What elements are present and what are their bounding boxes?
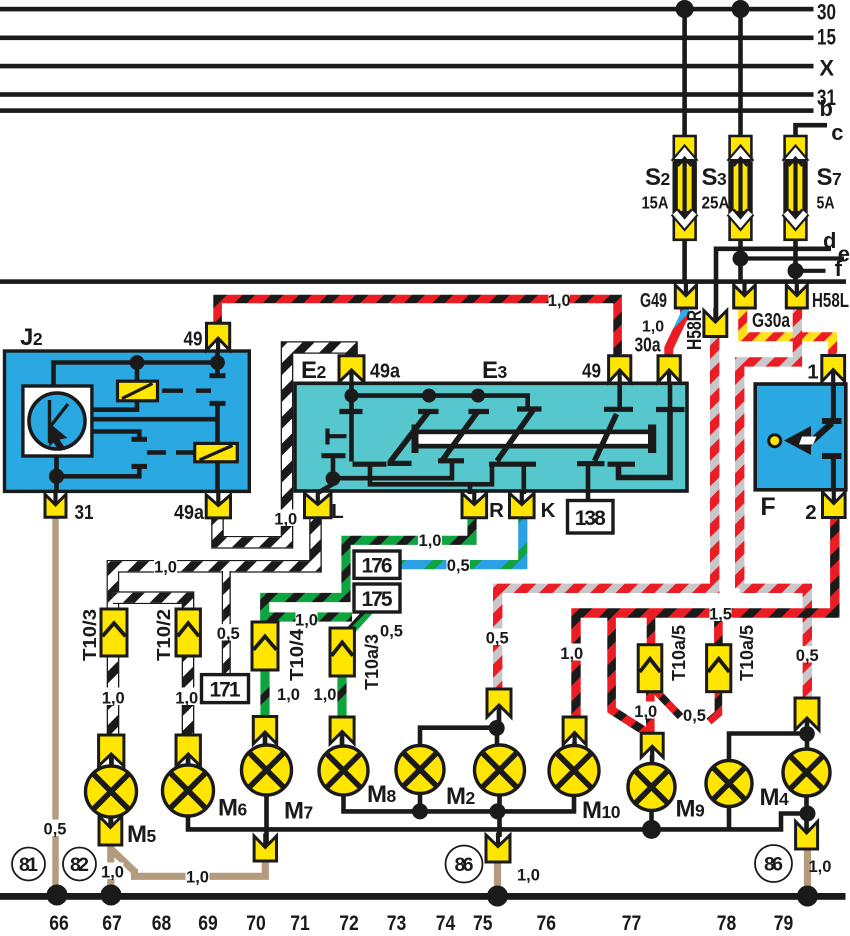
J2 junction dot right	[210, 355, 225, 370]
main connector rail	[0, 279, 846, 284]
svg-text:1: 1	[807, 361, 818, 384]
svg-text:76: 76	[537, 912, 557, 935]
wire black/white T10/3 to lamp M5	[107, 655, 120, 737]
svg-text:1,0: 1,0	[186, 869, 209, 887]
svg-text:1,0: 1,0	[517, 867, 540, 885]
wire lamp M5 bottom	[109, 814, 114, 830]
connector R	[462, 493, 487, 518]
junction dot y811 track75	[490, 803, 506, 819]
J2 switch contact bar bottom	[210, 401, 226, 406]
ground dot track79	[797, 886, 818, 907]
bus line 31	[0, 92, 814, 97]
junction dot y811 M2	[412, 803, 428, 819]
wire d with vertical to connector H58R	[716, 249, 831, 324]
lamp M9	[628, 764, 675, 811]
svg-text:0,5: 0,5	[486, 630, 509, 648]
E bottom bar B3	[438, 458, 464, 463]
J2 switch2 bar bottom	[132, 464, 148, 469]
bus line b	[0, 108, 814, 113]
connector T10a/3	[330, 628, 354, 676]
label 1,0 top red/black	[549, 291, 571, 308]
svg-text:30: 30	[817, 0, 836, 25]
connector T10a/5 right	[707, 645, 731, 692]
svg-text:74: 74	[436, 912, 456, 935]
J2 wire electronics bottom to node and conn 31	[54, 455, 59, 492]
wire red/black 49: E-box conn 49 to J2 conn 49	[218, 299, 618, 358]
E contact bar dot1 column	[339, 409, 362, 414]
wire lamp M9 top connector to lamp	[650, 755, 655, 766]
connector M7 bottom	[254, 836, 276, 861]
bus line 30	[0, 7, 814, 12]
ground symbol 86 right	[755, 845, 792, 882]
wire red/black 0,5 stub from T10a/5 right	[709, 691, 718, 722]
J2 wire electronics mid to 49 column	[93, 417, 218, 422]
svg-text:M5: M5	[127, 821, 157, 848]
wire brown track75 connector to ground	[494, 860, 501, 892]
svg-text:73: 73	[387, 912, 407, 935]
connector J2 49a	[206, 495, 230, 518]
lamp M5	[86, 766, 137, 817]
svg-text:K: K	[541, 499, 556, 522]
black joint rail y811 M8 to M10	[344, 793, 575, 811]
label 0,5 thin white wire	[218, 624, 240, 641]
E contact bar dot3 column	[469, 409, 490, 414]
svg-text:0,5: 0,5	[217, 625, 240, 643]
svg-text:T10a/3: T10a/3	[362, 634, 382, 690]
junction dot line30/S2	[676, 0, 694, 18]
svg-text:M8: M8	[367, 781, 397, 808]
J2 bottom junction dot	[49, 469, 64, 484]
J2 electronics circle symbol	[29, 393, 85, 449]
svg-text:82: 82	[70, 854, 89, 876]
svg-text:0,5: 0,5	[447, 557, 470, 575]
wire black/white branch to T10/2	[113, 598, 188, 611]
svg-text:49a: 49a	[370, 360, 401, 383]
svg-text:69: 69	[198, 912, 218, 935]
designation box 171	[202, 675, 249, 703]
svg-text:67: 67	[102, 912, 122, 935]
wire lamp M4 bottom	[727, 805, 732, 829]
wire below fuse S7 to main rail	[793, 239, 798, 282]
wire black/white 49a: J2 conn 49a to E-box conn 49a	[218, 348, 352, 543]
wire red/black branch to T10a/5 left	[647, 613, 656, 646]
svg-text:1,0: 1,0	[277, 686, 300, 704]
lamp M6	[163, 765, 214, 816]
wire lamp M2 feed from track75 lamp column	[420, 728, 497, 747]
lamp M10	[549, 746, 599, 796]
fuse S3	[730, 136, 752, 240]
connector E 30a	[658, 356, 680, 382]
svg-text:138: 138	[575, 507, 606, 530]
svg-text:H58R: H58R	[683, 310, 706, 350]
label 0,5 lightblue wire	[447, 556, 471, 573]
svg-text:75: 75	[473, 912, 493, 935]
E switch slider white bar	[412, 430, 657, 449]
J2 junction dot left	[130, 355, 145, 370]
wire red/black branch to M9 via diagonal	[612, 613, 646, 732]
fuse S7	[785, 136, 807, 240]
label 1,0 T10/3 wire	[103, 688, 124, 706]
J2 switch contact bar top	[210, 373, 226, 378]
connector G49	[675, 285, 696, 308]
E bottom bar B2	[353, 462, 387, 467]
wire lamp M2 bottom	[418, 792, 423, 812]
svg-text:T10/4: T10/4	[287, 629, 307, 681]
connector F 1	[822, 356, 845, 382]
svg-text:1,0: 1,0	[154, 559, 177, 577]
svg-text:J2: J2	[20, 324, 43, 351]
wire black/white L net: conn L to T10/3	[113, 516, 316, 611]
svg-text:M7: M7	[284, 798, 313, 825]
connector track75 ground	[486, 835, 510, 862]
J2 wire switch2 to bottom node	[57, 466, 140, 476]
E wiper diagonal 4	[595, 414, 617, 461]
svg-text:b: b	[820, 96, 833, 121]
wire brown track79 connector to ground	[804, 847, 811, 893]
svg-text:1,0: 1,0	[419, 532, 442, 550]
J2 wire dot to coil1	[135, 363, 140, 383]
E bottom bar B4	[489, 462, 536, 467]
svg-text:79: 79	[774, 912, 794, 935]
svg-text:0,5: 0,5	[380, 623, 403, 641]
F pushbutton dot	[769, 435, 781, 447]
connector T10/2	[176, 609, 200, 656]
svg-text:c: c	[831, 120, 843, 145]
connector M6 top	[176, 735, 200, 766]
wire lamp M7 top connector to lamp	[263, 730, 268, 748]
lamp M7	[242, 745, 292, 795]
svg-text:86: 86	[455, 854, 474, 876]
svg-text:175: 175	[362, 588, 393, 611]
connector J2 31	[45, 494, 66, 517]
svg-text:1,0: 1,0	[295, 612, 318, 630]
ground rail bottom	[0, 893, 846, 900]
connector L	[305, 493, 332, 518]
junction dot M2 feed	[489, 720, 505, 736]
wire lamp M8 top connector to lamp	[340, 730, 345, 748]
J2 relay coil 2	[195, 443, 238, 461]
E contact bar dot2 column	[418, 409, 439, 414]
connector E 49a	[339, 356, 364, 382]
wire red/grey H58R to lamp connector track75	[498, 334, 715, 690]
svg-text:F: F	[760, 493, 775, 521]
ground dot track67	[101, 885, 122, 906]
J2 electronics white box	[23, 386, 92, 456]
svg-text:H58L: H58L	[812, 289, 849, 312]
E bottom bar B7	[608, 462, 636, 467]
wire red/lightblue 30a: G49 to E-box conn 30a	[669, 306, 685, 358]
connector M5 bottom	[99, 816, 122, 845]
wire f from S7 column	[796, 269, 826, 273]
wire red/yellow: G30a to F conn 1	[743, 306, 833, 358]
designation box 175	[354, 584, 400, 612]
wire red/black T10a/5 left to M9 connector	[646, 691, 655, 734]
svg-text:T10/2: T10/2	[154, 609, 174, 661]
junction dot track79 lamp ground	[800, 806, 816, 822]
label 1,5 rail	[710, 604, 732, 621]
wire red/black branch to T10a/5 right	[714, 618, 723, 646]
svg-text:1,0: 1,0	[560, 645, 583, 663]
connector T10/3	[101, 609, 127, 656]
E contact L assembly	[321, 453, 345, 458]
label 0,5 red/grey track75	[487, 629, 509, 646]
svg-text:G49: G49	[640, 289, 667, 312]
E side contact stub	[328, 429, 347, 445]
svg-text:68: 68	[152, 912, 172, 935]
connector track79 ground	[796, 822, 818, 850]
label 1,0 R wire	[418, 531, 442, 548]
connector M10 top	[563, 717, 586, 745]
bus line 15	[0, 36, 814, 41]
svg-text:S7: S7	[817, 164, 842, 191]
svg-text:1,0: 1,0	[175, 690, 198, 708]
wire below fuse S3 to main rail	[738, 239, 743, 282]
svg-text:0,5: 0,5	[796, 647, 819, 665]
J2 wire coil1 to electronics	[93, 401, 137, 410]
wire green/black T10/4 to lamp M7 connector	[260, 669, 269, 719]
svg-text:E3: E3	[482, 357, 508, 384]
svg-text:M10: M10	[582, 797, 621, 824]
wire grey/red H58L to lamp connector track79	[740, 306, 808, 700]
connector T10a/5 left	[638, 645, 662, 692]
wire lamp M7 bottom to connector	[264, 793, 269, 849]
svg-text:25A: 25A	[702, 193, 730, 213]
wire e from S3 column	[741, 256, 845, 260]
junction dot line30/S3	[732, 0, 750, 18]
svg-text:M9: M9	[676, 796, 706, 823]
black joint rail y829 M6 to lamps	[188, 814, 808, 830]
designation box 176	[354, 551, 400, 578]
ground symbol 81	[12, 848, 45, 881]
svg-text:1,0: 1,0	[548, 292, 571, 310]
svg-text:171: 171	[210, 679, 241, 702]
svg-text:T10/3: T10/3	[80, 609, 100, 661]
E wiper diagonal 1	[390, 411, 430, 463]
svg-text:1,5: 1,5	[709, 606, 732, 624]
bus line X	[0, 64, 814, 69]
wire brown branch M5 to M7 connector	[112, 850, 265, 876]
E stub conn 30a with bar	[668, 384, 673, 407]
wire black/white 0,5 branch to box 171	[222, 571, 231, 675]
connector H58R	[704, 311, 727, 337]
svg-text:78: 78	[717, 912, 737, 935]
E wire node to B3	[333, 461, 452, 478]
wire track75 lamp connector through dot to lamp	[497, 703, 500, 837]
connector E 49	[609, 356, 631, 382]
wire green/black diagonal from box 175 to T10a/3	[346, 611, 370, 637]
wire lightblue/green K net: conn K to box 176	[402, 516, 523, 565]
lamp M8	[319, 746, 368, 795]
svg-text:0,5: 0,5	[44, 821, 67, 839]
svg-text:E2: E2	[301, 357, 327, 384]
connector track75 lamp top	[487, 689, 511, 717]
J2 dashed actuator link coil2	[147, 450, 194, 454]
fuse S2	[674, 136, 696, 240]
lamp M4	[706, 761, 752, 807]
J2 relay coil 1	[118, 381, 158, 401]
label 1,0 brown M5 vertical	[102, 863, 124, 880]
F switch arm with arrow	[803, 423, 832, 449]
connector K	[510, 493, 535, 518]
connector M9 top	[641, 733, 663, 757]
svg-text:1,0: 1,0	[102, 690, 125, 708]
E bottom bar B1	[388, 461, 412, 466]
label 1,0 brown horizontal	[186, 868, 210, 885]
svg-text:77: 77	[622, 912, 642, 935]
F wire terminal 2 with T bar	[831, 459, 836, 489]
svg-text:70: 70	[246, 912, 266, 935]
connector M8 top	[330, 717, 354, 744]
ground dot track75	[487, 886, 508, 907]
E hook B7 to 30a column	[619, 412, 671, 478]
wire lamp M9 bottom	[649, 809, 654, 830]
wire brown lamp M5 to ground track 67	[107, 843, 114, 892]
svg-text:49a: 49a	[174, 501, 205, 524]
svg-text:72: 72	[339, 912, 359, 935]
junction dot M4 feed	[799, 726, 815, 742]
svg-text:1,0: 1,0	[809, 858, 832, 876]
wire S3 column from line 30 to fuse S3	[738, 9, 743, 137]
svg-text:1,0: 1,0	[634, 703, 657, 721]
junction dot f	[788, 263, 804, 279]
svg-text:71: 71	[290, 912, 310, 935]
label 1,0 T10a/5 to M9	[636, 702, 657, 719]
connector T10/4	[252, 622, 278, 670]
E wire B2 to B4 with R tap	[370, 464, 492, 494]
svg-text:M2: M2	[446, 783, 476, 810]
E stub conn 49 with bar	[617, 384, 622, 407]
E dot 3	[471, 389, 485, 403]
switch box E2/E3	[295, 383, 687, 491]
E wire 138 drop	[586, 464, 591, 501]
wire brown J2 31 to ground track 66	[52, 515, 58, 892]
wire lamp M4 feed from track79 lamp column	[729, 734, 806, 763]
connector track79 lamp top	[795, 698, 819, 730]
wire lamp M10 top connector to lamp	[572, 742, 577, 748]
wire red/black 0,5 stub from T10a/5 left	[655, 690, 681, 717]
F wire terminal 1 with T bar	[831, 385, 836, 418]
connector G30a	[734, 285, 756, 308]
label 1,0 L wire	[154, 558, 177, 575]
svg-text:176: 176	[362, 555, 393, 578]
svg-text:81: 81	[19, 854, 38, 876]
svg-text:2: 2	[805, 501, 816, 524]
J2 switch2 bar top	[132, 437, 148, 442]
label 0,5 grey/red right	[797, 646, 819, 663]
wire green/black R net: conn R to T10/4	[265, 516, 472, 624]
svg-text:66: 66	[49, 912, 69, 935]
wire red/black 1,5 rail from F conn 2	[576, 516, 835, 718]
wire S2 column from line 30 to fuse S2	[682, 9, 687, 137]
lamp M2	[396, 746, 444, 794]
svg-text:L: L	[331, 500, 344, 523]
svg-text:T10a/5: T10a/5	[737, 625, 757, 681]
switch F box	[755, 384, 846, 490]
ground symbol 86 left	[446, 846, 483, 883]
svg-text:15A: 15A	[642, 193, 669, 213]
svg-text:1,0: 1,0	[101, 864, 124, 882]
J2 wire electronics lower to switch2	[93, 432, 139, 438]
svg-text:1,0: 1,0	[274, 511, 297, 529]
svg-text:R: R	[489, 499, 504, 522]
svg-text:49: 49	[184, 328, 203, 351]
svg-text:5A: 5A	[817, 193, 835, 213]
wire black/white T10/2 to lamp M6	[182, 655, 195, 737]
label 0,5 brown 31 wire	[44, 820, 66, 837]
svg-text:G30a: G30a	[752, 309, 790, 332]
connector M5 top	[99, 735, 124, 766]
connector H58L	[786, 285, 807, 308]
svg-text:T10a/5: T10a/5	[669, 625, 689, 681]
E dot 2	[422, 389, 436, 403]
svg-text:49: 49	[582, 360, 601, 383]
relay J2 box	[5, 351, 250, 491]
wire below fuse S2 to main rail	[682, 239, 687, 282]
junction dot e	[733, 251, 749, 267]
wire track79 lamp connector through dot to lamp	[804, 711, 809, 833]
svg-text:31: 31	[75, 501, 94, 524]
E stub conn 49a	[349, 384, 354, 392]
wire lamp M6 top	[186, 748, 191, 767]
label 1,0 green y618	[296, 611, 318, 628]
svg-text:d: d	[823, 228, 836, 253]
svg-text:0,5: 0,5	[683, 707, 706, 725]
ground dot track66	[47, 885, 68, 906]
wire c to fuse S7	[796, 125, 828, 137]
wire green/black T10a/3 to lamp M8 connector	[337, 675, 346, 719]
J2 dashed actuator link coil1	[162, 389, 211, 393]
svg-text:S3: S3	[702, 164, 728, 191]
label 1,0 49a riser	[276, 510, 297, 527]
E wiper diagonal 3	[497, 410, 534, 462]
wire green/black link T10/4 to diagonal	[271, 617, 352, 624]
E bottom bar B6	[577, 461, 605, 466]
E top rail	[352, 396, 528, 407]
connector J2 49	[207, 323, 230, 350]
svg-text:S2: S2	[645, 164, 671, 191]
E 49a column lower	[349, 396, 354, 462]
svg-text:86: 86	[764, 854, 783, 876]
svg-text:f: f	[835, 256, 843, 281]
svg-text:M6: M6	[218, 795, 248, 822]
svg-text:15: 15	[817, 25, 836, 50]
svg-text:1,0: 1,0	[314, 686, 337, 704]
E contact bar under rail drop	[517, 406, 542, 411]
wire lamp M5 top	[109, 748, 114, 768]
label 1,0 T10/2 wire	[177, 688, 198, 706]
svg-text:30a: 30a	[635, 335, 662, 357]
E wiper diagonal 2	[441, 411, 479, 463]
label 1,0 M10 leg	[562, 644, 583, 661]
junction dot M9 ground	[642, 820, 661, 839]
svg-text:X: X	[819, 56, 834, 81]
J2 wire 49 column	[215, 352, 220, 444]
connector F 2	[823, 492, 846, 518]
svg-text:M4: M4	[760, 784, 790, 811]
connector M7 top	[253, 717, 276, 745]
svg-text:1,0: 1,0	[642, 319, 664, 336]
J2 wire coil2 to conn 49a	[215, 462, 220, 492]
E wire K drop	[521, 464, 526, 494]
lamp track79	[783, 749, 830, 796]
designation box 138	[568, 501, 614, 534]
J2 internal top wire	[54, 363, 218, 388]
lamp track75	[475, 745, 525, 795]
E dot 1	[345, 389, 359, 403]
ground symbol 82	[63, 848, 96, 881]
